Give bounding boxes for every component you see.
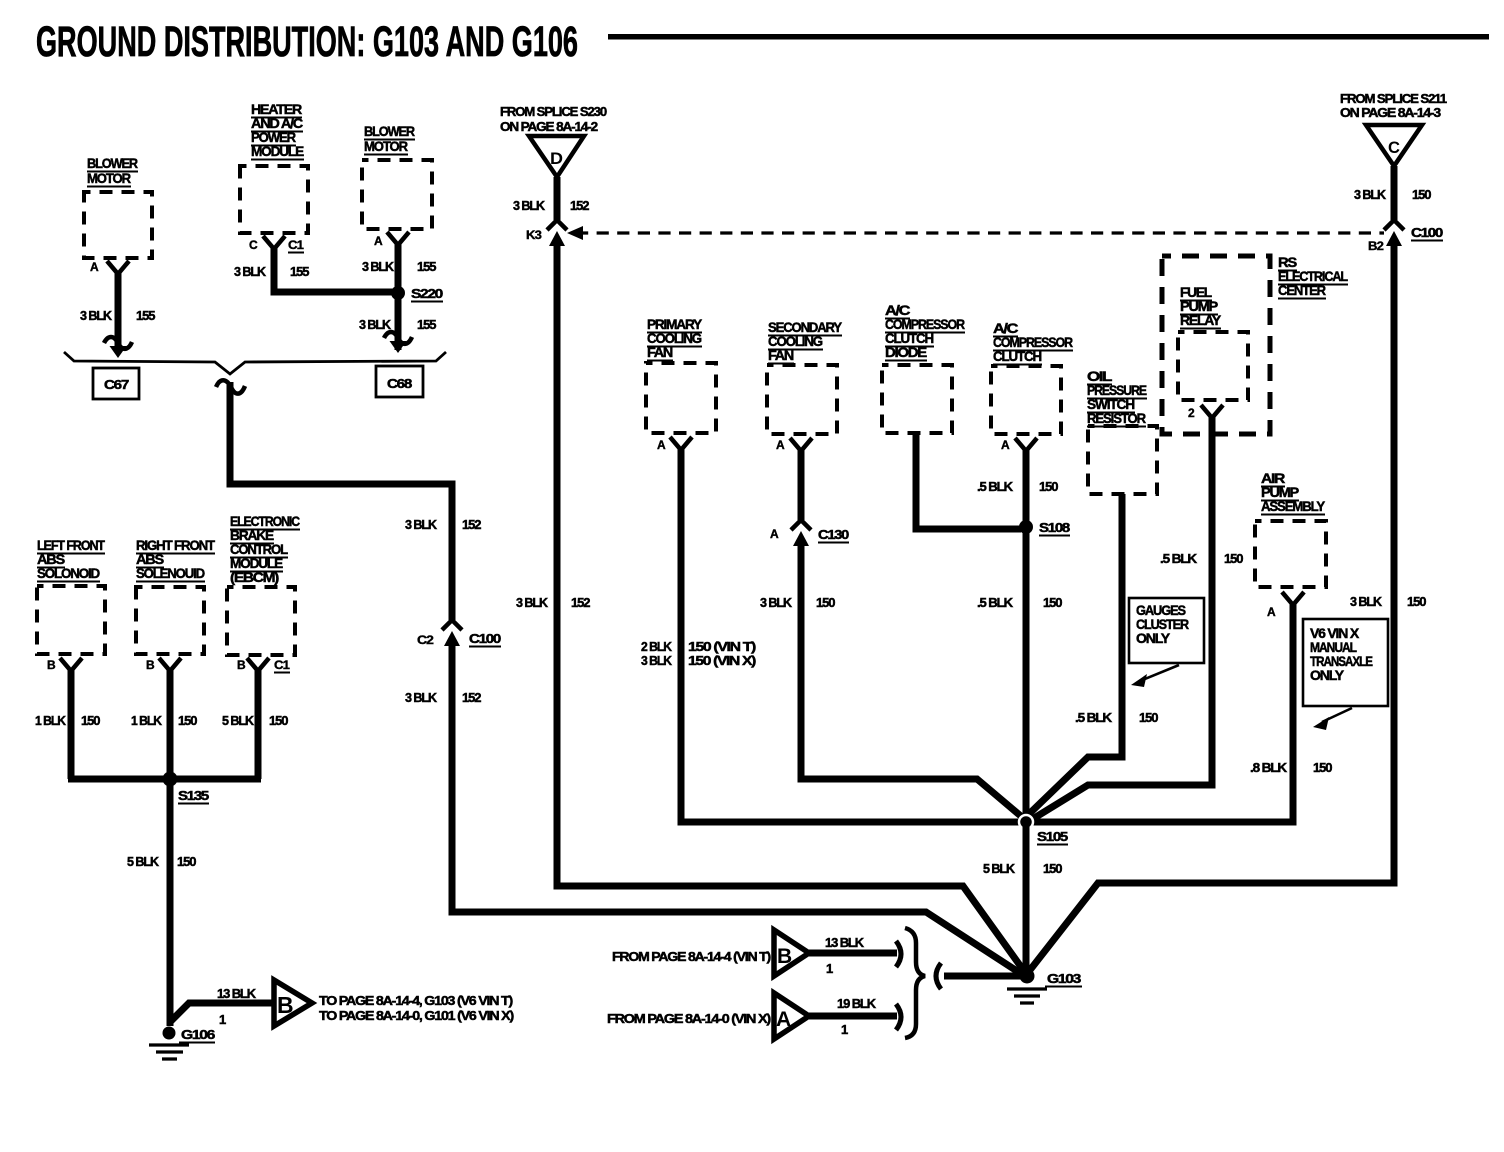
ebcm connector C1 label	[274, 658, 290, 673]
wire resistor to S105	[1029, 494, 1122, 814]
svg-text:150 (VIN T): 150 (VIN T)	[688, 639, 756, 654]
wire label 3 BLK 152 lower	[405, 690, 481, 705]
svg-text:K3: K3	[526, 228, 542, 242]
ebcm box	[227, 587, 295, 655]
svg-text:A: A	[770, 527, 779, 541]
dashed net line K3 to C100	[576, 231, 1384, 234]
flow arrow into bus C67	[104, 337, 132, 358]
connector C67 box	[93, 368, 139, 399]
ground G103 bars	[1007, 989, 1047, 1003]
gauges cluster only box	[1129, 598, 1204, 663]
primary cooling fan box	[646, 363, 716, 433]
svg-text:(EBCM): (EBCM)	[230, 569, 279, 585]
clutch pin fork	[1015, 438, 1037, 451]
svg-text:A: A	[374, 234, 383, 248]
blower motor 1 pin fork	[107, 261, 129, 274]
svg-text:3 BLK: 3 BLK	[516, 595, 549, 610]
wire C2 down to G103	[452, 640, 1023, 975]
svg-text:C130: C130	[818, 527, 849, 542]
svg-text:DIODE: DIODE	[885, 344, 927, 360]
svg-text:152: 152	[570, 198, 589, 213]
svg-text:B: B	[237, 658, 246, 672]
page triangle C	[1366, 125, 1422, 166]
svg-text:MODULE: MODULE	[251, 143, 304, 159]
svg-text:150: 150	[81, 713, 100, 728]
svg-text:ASSEMBLY: ASSEMBLY	[1261, 498, 1326, 514]
svg-text:C1: C1	[288, 238, 304, 252]
svg-text:152: 152	[571, 595, 590, 610]
svg-text:ON PAGE 8A-14-3: ON PAGE 8A-14-3	[1340, 105, 1441, 120]
merge brace	[905, 928, 925, 1038]
page triangle B bottom	[774, 930, 809, 976]
svg-text:ON PAGE 8A-14-2: ON PAGE 8A-14-2	[500, 119, 598, 134]
svg-text:5 BLK: 5 BLK	[222, 713, 255, 728]
svg-text:150: 150	[178, 713, 197, 728]
wire label 3 BLK 155	[234, 264, 309, 279]
wire label .8 BLK 150	[1250, 760, 1332, 775]
svg-text:A: A	[1001, 438, 1010, 452]
svg-text:C100: C100	[1411, 225, 1443, 240]
svg-text:S220: S220	[411, 286, 443, 301]
svg-text:C: C	[249, 238, 258, 252]
wire label .5 BLK 150	[1160, 551, 1243, 566]
wire S105 to G103	[1023, 822, 1030, 976]
svg-text:FROM PAGE 8A-14-4 (VIN T): FROM PAGE 8A-14-4 (VIN T)	[612, 949, 771, 964]
a/c compressor clutch box	[991, 366, 1061, 434]
wire label 3 BLK 152 upper	[405, 517, 481, 532]
wire clutch through S108 to S105	[1023, 449, 1030, 822]
svg-text:3 BLK: 3 BLK	[80, 308, 113, 323]
gauges cluster only text	[1136, 602, 1189, 646]
rs electrical center label	[1278, 254, 1348, 299]
connector C130 label	[818, 527, 849, 543]
connector C2/C100	[442, 620, 462, 646]
oil pressure switch resistor box	[1088, 426, 1157, 494]
svg-text:ONLY: ONLY	[1310, 667, 1345, 683]
connector K3	[547, 220, 567, 246]
svg-text:150: 150	[1407, 594, 1426, 609]
svg-text:RESISTOR: RESISTOR	[1087, 410, 1146, 426]
svg-text:S108: S108	[1039, 520, 1070, 535]
splice S105	[1019, 815, 1033, 829]
wire label 5 BLK 150 right	[222, 713, 288, 728]
svg-text:A: A	[776, 438, 785, 452]
svg-text:B: B	[277, 992, 294, 1018]
svg-text:3 BLK: 3 BLK	[641, 653, 673, 668]
svg-text:B: B	[777, 945, 792, 968]
secondary cooling fan box	[767, 365, 837, 434]
svg-text:G106: G106	[181, 1027, 215, 1042]
wire triangle B stub	[809, 950, 897, 957]
svg-text:3 BLK: 3 BLK	[513, 198, 546, 213]
rs electrical center box	[1162, 256, 1270, 434]
svg-text:1: 1	[219, 1012, 226, 1027]
a/c compressor clutch diode label	[885, 302, 965, 361]
ground G103 label	[1045, 971, 1082, 987]
svg-text:SOLONOID: SOLONOID	[37, 565, 100, 581]
fuel pump relay box	[1178, 332, 1248, 400]
wire merge to G103	[944, 973, 1027, 980]
stub end arc B	[896, 941, 901, 967]
ground G103 dot	[1020, 969, 1035, 984]
svg-text:RELAY: RELAY	[1180, 312, 1222, 328]
svg-text:3 BLK: 3 BLK	[405, 690, 438, 705]
svg-text:150: 150	[1224, 551, 1243, 566]
svg-text:.5 BLK: .5 BLK	[1160, 551, 1198, 566]
svg-text:B: B	[47, 658, 56, 672]
svg-text:1: 1	[841, 1022, 848, 1037]
svg-text:C1: C1	[274, 658, 290, 672]
splice S135	[163, 772, 178, 787]
right front abs solenouid label	[136, 537, 216, 582]
svg-text:SOLENOUID: SOLENOUID	[136, 565, 205, 581]
svg-text:5 BLK: 5 BLK	[983, 861, 1016, 876]
svg-text:B: B	[146, 658, 155, 672]
svg-text:3 BLK: 3 BLK	[359, 317, 392, 332]
wire bus tap down and right to C2	[230, 382, 452, 620]
svg-text:.5 BLK: .5 BLK	[1075, 710, 1113, 725]
wire label .5 BLK 150 lower	[977, 595, 1062, 610]
wire D to K3	[554, 177, 561, 220]
wire label 2 BLK / 3 BLK VIN	[641, 639, 756, 654]
svg-text:3 BLK: 3 BLK	[1354, 187, 1387, 202]
connector C130	[791, 520, 811, 546]
left front abs box	[37, 586, 105, 654]
svg-text:2 BLK: 2 BLK	[641, 639, 673, 654]
wire label 3 BLK 152	[513, 198, 589, 213]
wire label 3 BLK 152 lower	[516, 595, 590, 610]
flow arrow into bus C68	[384, 332, 412, 353]
connector C68 box	[376, 366, 423, 397]
svg-text:150: 150	[816, 595, 835, 610]
svg-text:152: 152	[462, 517, 481, 532]
secondary fan pin fork	[790, 438, 812, 451]
merge hook	[936, 963, 941, 989]
page triangle A bottom	[774, 993, 809, 1039]
svg-text:150: 150	[1139, 710, 1158, 725]
air pump pin fork	[1282, 592, 1304, 605]
wire abs solenoids to S135 bar	[68, 669, 261, 779]
svg-text:S105: S105	[1037, 829, 1068, 844]
right front abs box	[136, 587, 204, 654]
splice S108	[1019, 520, 1033, 534]
ground G106 label	[179, 1027, 215, 1043]
wire label 5 BLK 150	[983, 861, 1062, 876]
svg-text:FAN: FAN	[768, 347, 794, 363]
wire heater module to splice S220	[274, 247, 395, 292]
svg-text:C100: C100	[469, 631, 501, 646]
svg-text:13 BLK: 13 BLK	[217, 986, 257, 1001]
heater module box	[240, 166, 308, 233]
svg-text:TO PAGE 8A-14-0, G101 (V6 VIN: TO PAGE 8A-14-0, G101 (V6 VIN X)	[319, 1008, 514, 1023]
svg-text:A: A	[657, 438, 666, 452]
svg-text:FROM SPLICE S211: FROM SPLICE S211	[1340, 91, 1447, 106]
svg-text:A: A	[1267, 605, 1276, 619]
svg-text:MOTOR: MOTOR	[87, 170, 131, 186]
svg-text:BLOWER: BLOWER	[364, 123, 415, 139]
svg-text:155: 155	[417, 317, 436, 332]
svg-text:19 BLK: 19 BLK	[837, 996, 877, 1011]
svg-text:150: 150	[1412, 187, 1431, 202]
splice S135 label	[178, 788, 209, 804]
page triangle D	[529, 136, 584, 177]
svg-text:150: 150	[1043, 595, 1062, 610]
air pump assembly label	[1261, 470, 1326, 515]
blower motor 2 box	[362, 160, 432, 229]
svg-text:C2: C2	[417, 633, 434, 647]
splice S108 label	[1039, 520, 1070, 536]
svg-text:3 BLK: 3 BLK	[234, 264, 267, 279]
svg-text:155: 155	[417, 259, 436, 274]
wire diode to S108	[916, 433, 1021, 529]
blower motor 1 box	[84, 192, 152, 258]
wire C130 down to S105	[801, 540, 1022, 817]
connector bus line C67/C68	[64, 352, 446, 374]
svg-text:155: 155	[290, 264, 309, 279]
svg-text:3 BLK: 3 BLK	[362, 259, 395, 274]
svg-text:3 BLK: 3 BLK	[1350, 594, 1383, 609]
svg-text:150 (VIN X): 150 (VIN X)	[688, 653, 756, 668]
wire label 3 BLK 155 upper	[362, 259, 436, 274]
fuel pump relay pin fork	[1201, 405, 1223, 418]
wire K3 down to G103	[557, 240, 1029, 978]
left front abs solonoid label	[37, 537, 105, 582]
svg-text:TO PAGE 8A-14-4, G103 (V6 VIN: TO PAGE 8A-14-4, G103 (V6 VIN T)	[319, 993, 513, 1008]
svg-text:150: 150	[1043, 861, 1062, 876]
ground G106 dot	[163, 1027, 176, 1040]
wire label 1 BLK 150 middle	[131, 713, 197, 728]
ebcm label	[230, 513, 300, 585]
wire right abs into S135	[167, 669, 174, 779]
wire label 1 BLK 150 left	[35, 713, 100, 728]
svg-text:GROUND DISTRIBUTION: G103 AND: GROUND DISTRIBUTION: G103 AND G106	[36, 18, 578, 66]
svg-text:155: 155	[136, 308, 155, 323]
svg-text:1: 1	[826, 961, 833, 976]
svg-text:FAN: FAN	[647, 344, 673, 360]
wire label 3 BLK 150 lower	[1350, 594, 1426, 609]
blower motor 2 pin fork	[387, 232, 409, 245]
svg-text:FROM PAGE 8A-14-0 (VIN X): FROM PAGE 8A-14-0 (VIN X)	[607, 1011, 771, 1026]
svg-text:150: 150	[1313, 760, 1332, 775]
svg-text:C68: C68	[387, 376, 412, 391]
wire secondary fan to C130	[798, 449, 805, 520]
wire C100 down to G103	[1023, 240, 1394, 979]
v6 note arrow	[1322, 708, 1352, 722]
wire C to C100	[1391, 166, 1398, 220]
heater module pin fork	[263, 236, 285, 249]
svg-text:13 BLK: 13 BLK	[825, 935, 865, 950]
svg-text:A: A	[776, 1008, 791, 1031]
svg-text:3 BLK: 3 BLK	[405, 517, 438, 532]
wire S135 down to G106	[167, 779, 174, 1026]
svg-text:FROM SPLICE S230: FROM SPLICE S230	[500, 104, 607, 119]
connector C100 mid label	[469, 631, 501, 647]
wire label 3 BLK 150	[1354, 187, 1431, 202]
right front abs pin fork	[159, 658, 181, 671]
svg-text:5 BLK: 5 BLK	[127, 854, 160, 869]
svg-text:A: A	[90, 260, 99, 274]
blower motor 2 label	[364, 123, 415, 155]
a/c compressor clutch diode box	[882, 365, 952, 433]
svg-text:CLUTCH: CLUTCH	[993, 348, 1042, 364]
svg-text:ONLY: ONLY	[1136, 630, 1171, 646]
wire label 5 BLK 150	[127, 854, 196, 869]
svg-text:G103: G103	[1047, 971, 1081, 986]
wire blower motor 2 through S220 to bus	[395, 243, 402, 350]
svg-text:BLOWER: BLOWER	[87, 155, 138, 171]
svg-text:CENTER: CENTER	[1278, 282, 1326, 298]
svg-text:C: C	[1388, 138, 1400, 157]
blower motor 1 label	[87, 155, 138, 187]
wire label 3 BLK 155	[80, 308, 155, 323]
stub end arc A	[896, 1004, 901, 1030]
title rule line	[608, 34, 1489, 40]
svg-text:C67: C67	[104, 377, 129, 392]
wire triangle A stub	[809, 1013, 897, 1020]
svg-text:150: 150	[269, 713, 288, 728]
air pump assembly box	[1255, 521, 1326, 587]
svg-text:1 BLK: 1 BLK	[131, 713, 163, 728]
wire blower motor 1 to bus	[115, 272, 122, 350]
splice S220	[391, 286, 405, 300]
page triangle B left	[274, 980, 312, 1026]
heater and a/c power module label	[251, 101, 304, 160]
wire label .5 BLK 150	[1075, 710, 1158, 725]
svg-text:.5 BLK: .5 BLK	[977, 595, 1014, 610]
wire label 3 BLK 155 lower	[359, 317, 436, 332]
svg-text:.5 BLK: .5 BLK	[977, 479, 1014, 494]
a/c compressor clutch label	[993, 320, 1073, 365]
secondary cooling fan label	[768, 319, 843, 364]
splice S220 label	[411, 286, 443, 302]
gauges note arrow	[1140, 665, 1179, 681]
svg-text:MOTOR: MOTOR	[364, 138, 408, 154]
fuel pump relay label	[1180, 284, 1222, 329]
wire fuel pump relay to S105	[1031, 416, 1212, 820]
svg-text:B2: B2	[1368, 239, 1384, 253]
svg-text:.8 BLK: .8 BLK	[1250, 760, 1288, 775]
svg-text:150: 150	[1039, 479, 1058, 494]
v6 note text	[1310, 625, 1373, 683]
wire primary fan to S105	[681, 448, 1026, 822]
svg-text:1 BLK: 1 BLK	[35, 713, 67, 728]
wire label 3 BLK 150	[760, 595, 835, 610]
primary fan pin fork	[670, 437, 692, 450]
flow squiggle below bus tap	[216, 380, 245, 393]
v6 vin x manual transaxle only box	[1303, 619, 1388, 706]
oil pressure switch resistor label	[1087, 368, 1147, 427]
splice S105 label	[1037, 829, 1068, 845]
heater module connector C1 label	[288, 238, 304, 253]
ground G106 bars	[149, 1045, 189, 1059]
wire label .5 BLK 150 upper	[977, 479, 1058, 494]
svg-text:D: D	[550, 149, 563, 168]
wire branch to page triangle B	[171, 1003, 274, 1021]
left front abs pin fork	[60, 658, 82, 671]
connector C100 label	[1411, 225, 1443, 241]
wire air pump to S105	[1026, 603, 1293, 822]
ebcm pin fork	[247, 658, 269, 671]
svg-text:152: 152	[462, 690, 481, 705]
dashed line left arrowhead	[567, 226, 583, 240]
svg-text:3 BLK: 3 BLK	[760, 595, 793, 610]
svg-text:S135: S135	[178, 788, 209, 803]
svg-text:150: 150	[177, 854, 196, 869]
connector C100	[1384, 220, 1404, 246]
primary cooling fan label	[647, 316, 703, 361]
